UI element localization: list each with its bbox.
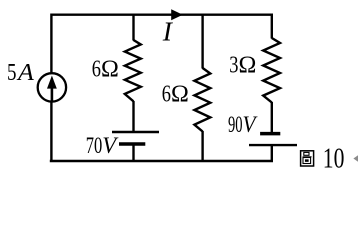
svg-text:Ω: Ω — [239, 53, 257, 79]
wire branch1 top — [132, 14, 134, 41]
anchor mark at right edge — [353, 155, 358, 162]
svg-text:70: 70 — [86, 133, 103, 159]
svg-text:Ω: Ω — [171, 82, 189, 108]
wire bottom rail — [50, 160, 273, 163]
resistor R3 3ohm — [263, 38, 280, 103]
wire branch2 bottom — [201, 131, 203, 161]
svg-text:A: A — [16, 60, 34, 86]
svg-text:V: V — [243, 112, 258, 138]
caption figure character tu (CJK 圖) — [301, 151, 314, 166]
wire branch3 mid — [271, 102, 273, 134]
battery V1 70V — [112, 132, 159, 144]
svg-text:Ω: Ω — [101, 57, 119, 83]
svg-text:6: 6 — [162, 82, 171, 108]
battery V2 90V — [249, 134, 297, 146]
wire branch1 bottom — [132, 144, 134, 161]
svg-text:90: 90 — [228, 112, 243, 138]
wire branch3 bottom — [271, 145, 273, 161]
svg-text:10: 10 — [323, 142, 345, 174]
wire top rail — [51, 15, 271, 162]
svg-text:V: V — [102, 133, 119, 159]
resistor R2 6ohm — [194, 68, 210, 132]
wire branch3 top — [271, 14, 273, 39]
wire branch2 top — [201, 14, 203, 69]
svg-text:6: 6 — [92, 57, 101, 83]
current arrow I on top wire — [171, 9, 183, 20]
resistor R1 6ohm — [125, 40, 141, 101]
svg-text:I: I — [162, 15, 174, 46]
current source I1 5A — [38, 73, 66, 101]
svg-text:3: 3 — [229, 53, 238, 79]
svg-text:5: 5 — [7, 60, 17, 86]
wire branch1 mid — [132, 101, 134, 132]
